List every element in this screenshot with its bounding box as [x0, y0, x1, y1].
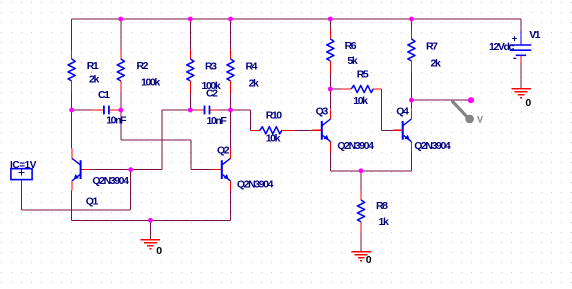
resistor R4 — [227, 50, 234, 93]
node C2 left — [188, 108, 193, 113]
node Q1 base — [128, 167, 133, 172]
wire Q1 collector up — [71, 110, 73, 148]
svg-text:10nF: 10nF — [207, 115, 228, 127]
wire cross to Q2 base — [121, 139, 191, 141]
svg-text:5k: 5k — [347, 55, 357, 67]
initial condition IC1 — [11, 169, 32, 180]
wire emitter bus left — [72, 219, 231, 221]
svg-text:Q2N3904: Q2N3904 — [237, 179, 274, 191]
node probe V — [468, 97, 474, 103]
svg-text:100k: 100k — [141, 77, 160, 89]
transistor Q2 — [212, 149, 230, 191]
wire R5 left — [330, 88, 341, 90]
svg-text:Q2: Q2 — [217, 145, 230, 157]
wire R6 top drop — [329, 19, 331, 29]
resistor R6 — [327, 29, 334, 72]
wire IC1 across — [22, 209, 131, 211]
capacitor C2 — [196, 106, 218, 115]
wire top power rail — [72, 18, 521, 20]
junction top R4 — [228, 17, 233, 22]
wire R1 bottom to node — [71, 93, 73, 110]
wire IC1 down — [21, 180, 23, 210]
svg-text:Q2N3904: Q2N3904 — [414, 140, 451, 152]
svg-text:R1: R1 — [87, 60, 99, 72]
svg-text:Q2N3904: Q2N3904 — [337, 140, 374, 152]
wire R5 down to Q4 base — [380, 89, 382, 130]
wire R1 top drop — [71, 19, 73, 50]
svg-text:Q1: Q1 — [86, 195, 99, 207]
wire Q2 collector up — [230, 110, 232, 148]
svg-text:R7: R7 — [426, 41, 438, 53]
resistor R2 — [117, 50, 124, 93]
svg-text:R2: R2 — [137, 60, 149, 72]
wire Q4 emitter down — [410, 150, 412, 171]
ground 0 — [141, 240, 161, 249]
wire R4 top drop — [230, 19, 232, 50]
svg-text:10k: 10k — [266, 133, 281, 145]
wire Q1 base stub — [90, 169, 131, 171]
svg-text:R4: R4 — [246, 61, 258, 73]
node C1 right — [118, 108, 123, 113]
svg-text:R6: R6 — [345, 40, 357, 52]
wire R4 bottom to node — [230, 93, 232, 110]
wire R2 top drop — [120, 19, 122, 50]
wire Q1 emitter down — [71, 191, 73, 221]
svg-text:IC=1V: IC=1V — [10, 160, 37, 171]
wire C2 left segment — [162, 109, 190, 111]
svg-text:Q2N3904: Q2N3904 — [92, 175, 129, 187]
wire R6 node to Q3 collector — [329, 89, 331, 109]
svg-text:Q3: Q3 — [316, 106, 329, 118]
svg-text:V: V — [477, 115, 483, 125]
junction top R3 — [188, 17, 193, 22]
junction top R6 — [328, 17, 333, 22]
dc source V1 — [510, 30, 532, 63]
svg-text:V1: V1 — [529, 29, 541, 41]
svg-text:R8: R8 — [376, 200, 388, 212]
svg-text:12Vdc: 12Vdc — [489, 41, 514, 53]
wire C1 left — [72, 109, 93, 111]
svg-text:R5: R5 — [357, 69, 369, 81]
svg-text:2k: 2k — [431, 58, 441, 70]
resistor R5 — [341, 85, 382, 92]
resistor R3 — [187, 50, 194, 93]
transistor Q1 — [72, 149, 90, 191]
ground 0 — [511, 89, 531, 98]
wire R10 to Q3 base — [294, 129, 313, 131]
voltage probe V — [453, 102, 483, 125]
svg-text:C2: C2 — [206, 88, 218, 100]
node R8 top — [359, 168, 364, 173]
wire R8 top — [360, 171, 362, 191]
junction top R2 — [118, 17, 123, 22]
node R5 left — [328, 87, 333, 92]
wire R3 bottom to node — [189, 93, 191, 110]
svg-text:R3: R3 — [205, 61, 217, 73]
wire Q2 base stub — [191, 169, 212, 171]
transistor Q3 — [312, 109, 330, 151]
wire node C down — [161, 110, 163, 170]
junction top R7 — [409, 17, 414, 22]
wire V1 bottom — [520, 63, 522, 88]
svg-text:Q4: Q4 — [396, 106, 409, 118]
wire node B down — [120, 110, 122, 140]
wire R7 bottom — [410, 71, 412, 101]
wire C2 right — [218, 109, 230, 111]
wire Q3 emitter down — [329, 150, 331, 171]
svg-text:C1: C1 — [98, 89, 110, 101]
resistor R7 — [408, 29, 415, 72]
resistor R8 — [357, 191, 364, 234]
wire R2 bottom to node — [120, 93, 122, 110]
wire R7 top drop — [410, 19, 412, 29]
wire Q2 emitter down — [230, 191, 232, 221]
wire C2 left pin join — [190, 109, 196, 111]
wire Q4 base join — [381, 129, 393, 131]
wire R5 right — [373, 88, 381, 90]
wire IC1 up to Q1 base — [130, 170, 132, 210]
wire probe net — [411, 99, 471, 101]
ground 0 — [351, 252, 371, 261]
wire down to Q2 base — [190, 140, 192, 170]
wire R6 bottom — [329, 71, 331, 90]
svg-text:R10: R10 — [266, 110, 283, 122]
wire R3 top drop — [189, 19, 191, 50]
wire Q4 collector up — [410, 100, 412, 109]
svg-text:1k: 1k — [379, 216, 389, 228]
svg-text:10nF: 10nF — [106, 114, 127, 126]
wire R8 bottom — [360, 231, 362, 251]
node R7 bottom — [409, 98, 414, 103]
svg-text:2k: 2k — [249, 77, 259, 89]
wire node D to R10 — [231, 109, 251, 111]
wire to Q1 base — [131, 169, 162, 171]
node C2 right — [228, 108, 233, 113]
wire ground stem left — [149, 220, 151, 239]
capacitor C1 — [92, 106, 120, 115]
wire down to R10 — [249, 110, 251, 130]
transistor Q4 — [393, 109, 411, 151]
svg-text:2k: 2k — [89, 74, 99, 86]
resistor R10 — [250, 127, 293, 134]
wire emitter bus right — [330, 170, 411, 172]
resistor R1 — [68, 50, 75, 93]
node ground left — [148, 218, 153, 223]
svg-text:-: - — [513, 52, 517, 64]
wire C1 right — [118, 109, 121, 111]
node C1 left — [69, 108, 74, 113]
svg-text:10k: 10k — [353, 95, 368, 107]
wire V1 top drop — [520, 19, 522, 30]
